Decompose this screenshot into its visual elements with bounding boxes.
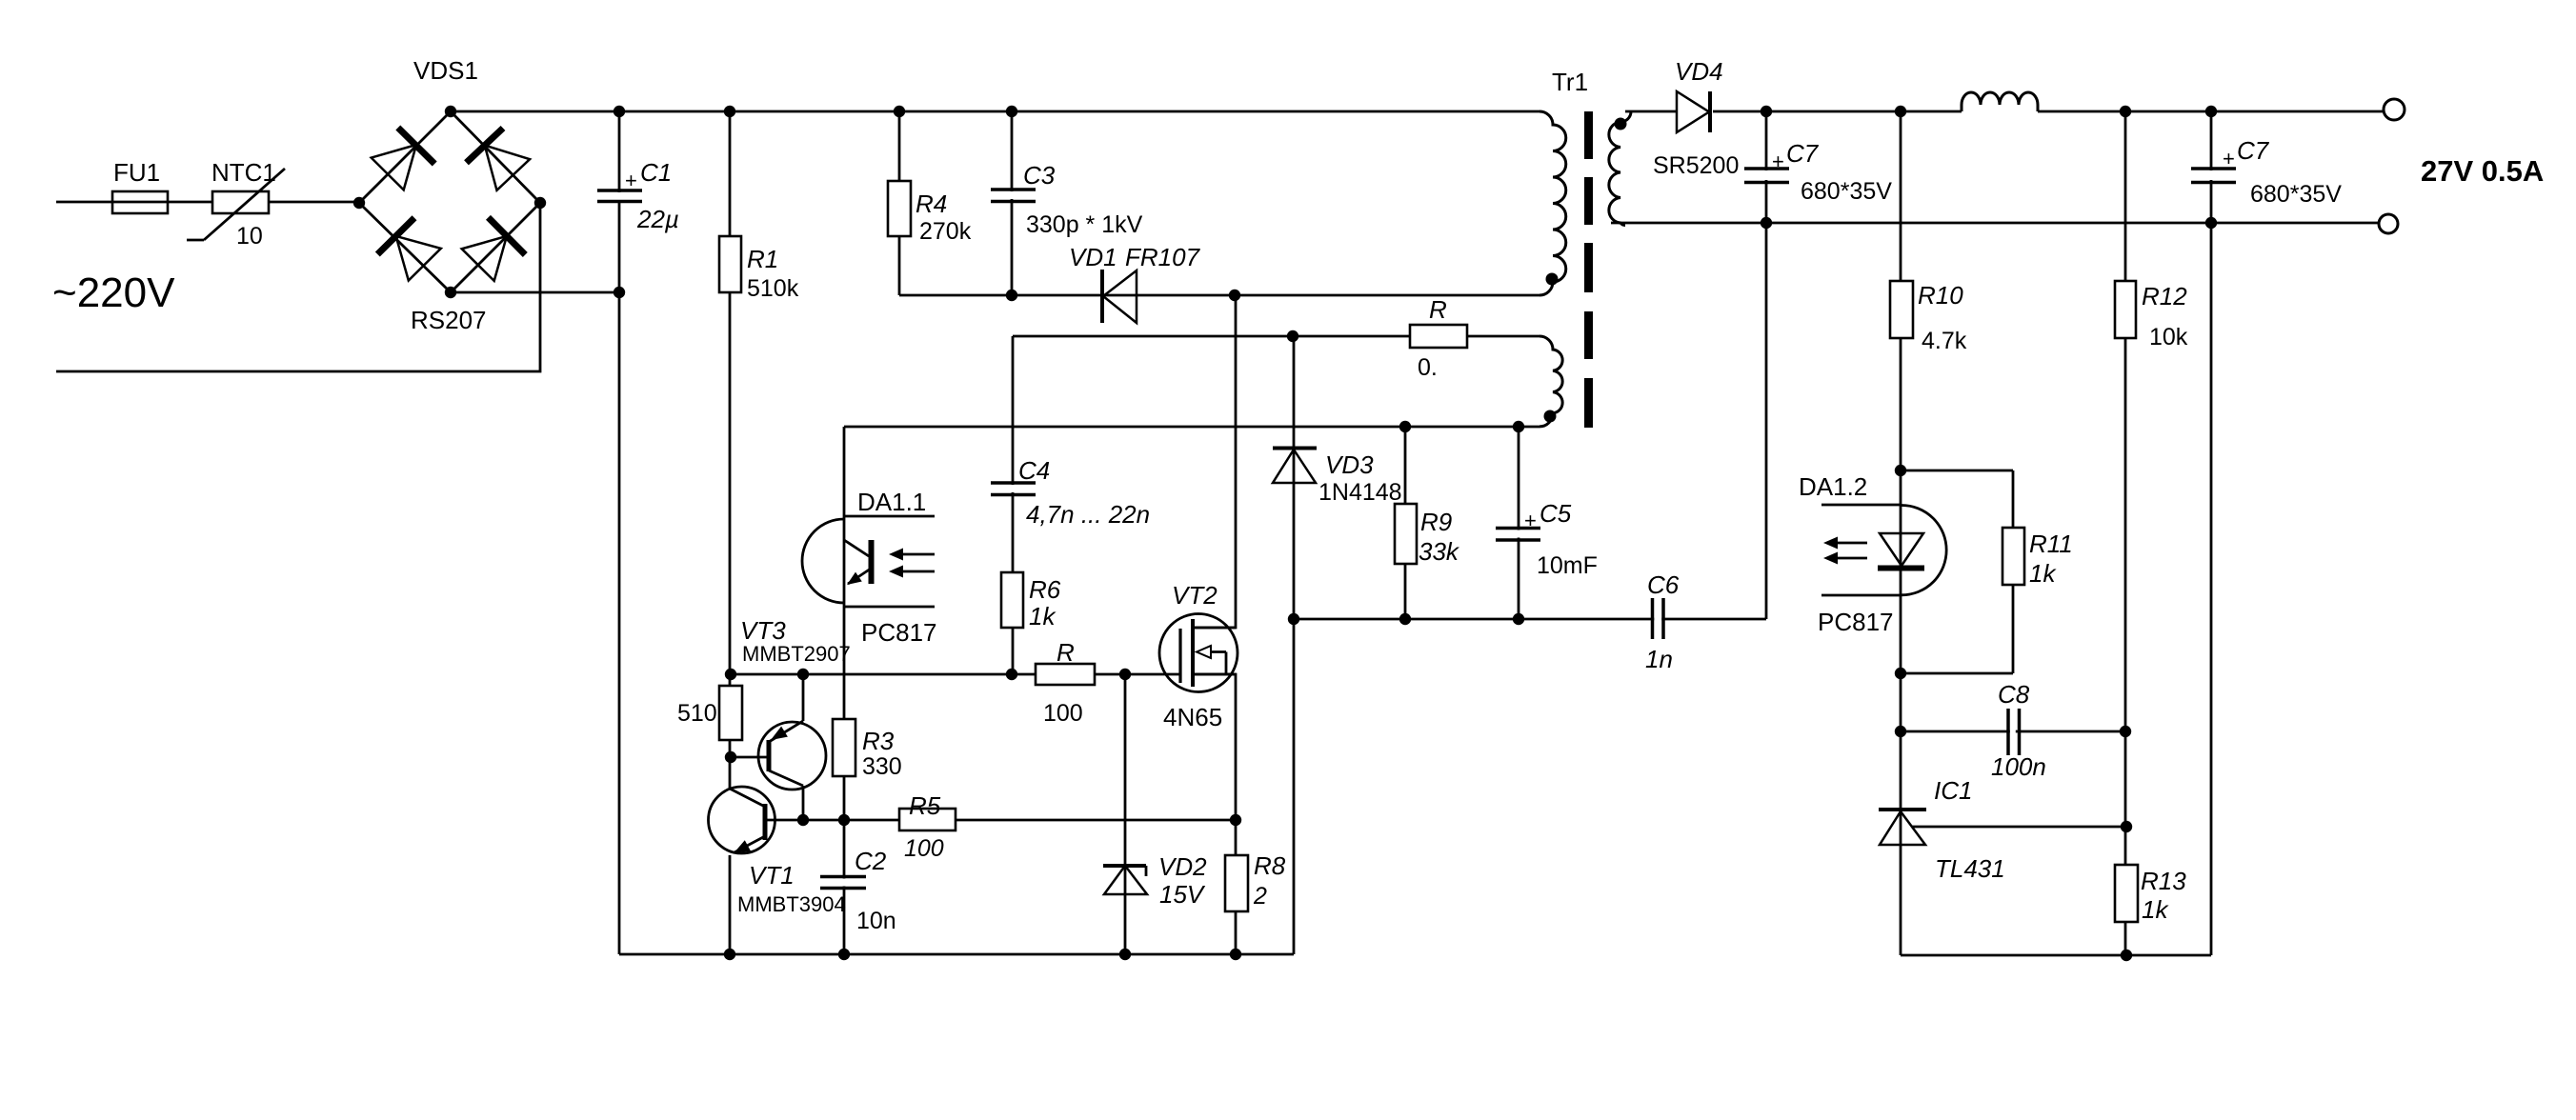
svg-text:DA1.1: DA1.1 xyxy=(857,488,926,516)
svg-text:10k: 10k xyxy=(2149,324,2188,350)
svg-text:1N4148: 1N4148 xyxy=(1318,479,1402,506)
svg-text:C6: C6 xyxy=(1647,570,1680,599)
svg-text:R8: R8 xyxy=(1254,851,1286,880)
svg-text:510k: 510k xyxy=(747,275,799,302)
svg-text:27V 0.5A: 27V 0.5A xyxy=(2421,154,2544,188)
svg-text:22µ: 22µ xyxy=(636,205,679,233)
svg-text:NTC1: NTC1 xyxy=(211,158,276,187)
svg-text:1k: 1k xyxy=(1029,602,1057,630)
svg-text:R: R xyxy=(1429,295,1447,324)
svg-text:1n: 1n xyxy=(1645,645,1673,673)
svg-text:C7: C7 xyxy=(2237,136,2270,165)
svg-text:VD2: VD2 xyxy=(1158,852,1207,881)
svg-text:+: + xyxy=(625,169,637,192)
svg-text:33k: 33k xyxy=(1419,537,1460,566)
svg-text:4.7k: 4.7k xyxy=(1922,328,1967,354)
svg-text:VD1: VD1 xyxy=(1069,243,1117,271)
svg-text:R5: R5 xyxy=(909,791,941,820)
svg-text:2: 2 xyxy=(1253,883,1267,910)
svg-text:C7: C7 xyxy=(1786,139,1820,168)
svg-text:4N65: 4N65 xyxy=(1163,703,1222,731)
svg-text:+: + xyxy=(1524,509,1537,532)
svg-text:R9: R9 xyxy=(1420,508,1452,536)
svg-text:VT3: VT3 xyxy=(740,616,786,645)
svg-text:IC1: IC1 xyxy=(1934,776,1972,805)
svg-text:PC817: PC817 xyxy=(1818,608,1894,636)
svg-text:100n: 100n xyxy=(1991,752,2046,781)
svg-text:C5: C5 xyxy=(1540,499,1572,528)
svg-text:+: + xyxy=(2223,147,2235,170)
svg-text:R3: R3 xyxy=(862,727,895,755)
svg-text:R12: R12 xyxy=(2142,282,2187,310)
svg-text:R4: R4 xyxy=(916,190,947,218)
svg-text:C8: C8 xyxy=(1998,680,2030,709)
svg-text:PC817: PC817 xyxy=(861,618,937,647)
svg-text:R: R xyxy=(1057,638,1075,667)
svg-text:RS207: RS207 xyxy=(411,306,487,334)
svg-text:~220V: ~220V xyxy=(52,270,175,316)
svg-text:TL431: TL431 xyxy=(1935,854,2005,883)
svg-text:+: + xyxy=(1772,150,1784,173)
svg-text:10n: 10n xyxy=(856,908,896,934)
svg-text:VD4: VD4 xyxy=(1675,57,1723,86)
svg-text:C1: C1 xyxy=(640,158,672,187)
svg-text:VD3: VD3 xyxy=(1325,450,1374,479)
svg-text:R11: R11 xyxy=(2029,530,2073,558)
svg-text:MMBT3904: MMBT3904 xyxy=(737,892,846,916)
svg-text:100: 100 xyxy=(904,835,944,862)
svg-text:330: 330 xyxy=(862,753,902,780)
svg-text:510: 510 xyxy=(677,700,717,727)
svg-text:C4: C4 xyxy=(1018,456,1050,485)
svg-text:R10: R10 xyxy=(1918,281,1963,310)
svg-text:SR5200: SR5200 xyxy=(1653,152,1739,179)
svg-text:680*35V: 680*35V xyxy=(1801,178,1892,205)
svg-text:R13: R13 xyxy=(2141,867,2186,895)
svg-text:R6: R6 xyxy=(1029,575,1061,604)
svg-text:MMBT2907: MMBT2907 xyxy=(742,642,851,666)
svg-text:10: 10 xyxy=(236,223,263,250)
svg-text:VT1: VT1 xyxy=(749,861,795,890)
svg-text:R1: R1 xyxy=(747,245,778,273)
svg-text:Tr1: Tr1 xyxy=(1552,68,1588,96)
svg-text:1k: 1k xyxy=(2142,895,2169,924)
svg-text:VDS1: VDS1 xyxy=(413,56,478,85)
svg-text:15V: 15V xyxy=(1159,880,1206,909)
svg-text:FR107: FR107 xyxy=(1125,243,1201,271)
svg-text:680*35V: 680*35V xyxy=(2250,181,2342,208)
svg-text:FU1: FU1 xyxy=(113,158,160,187)
svg-text:1k: 1k xyxy=(2029,559,2057,588)
svg-text:DA1.2: DA1.2 xyxy=(1799,472,1867,501)
svg-text:C2: C2 xyxy=(855,847,887,875)
svg-text:270k: 270k xyxy=(919,218,972,245)
svg-text:100: 100 xyxy=(1043,700,1083,727)
svg-text:VT2: VT2 xyxy=(1172,581,1218,610)
svg-text:C3: C3 xyxy=(1023,161,1056,190)
svg-text:10mF: 10mF xyxy=(1537,552,1598,579)
svg-text:0.: 0. xyxy=(1418,354,1438,381)
svg-text:4,7n ... 22n: 4,7n ... 22n xyxy=(1026,500,1150,529)
svg-text:330p * 1kV: 330p * 1kV xyxy=(1026,211,1143,238)
